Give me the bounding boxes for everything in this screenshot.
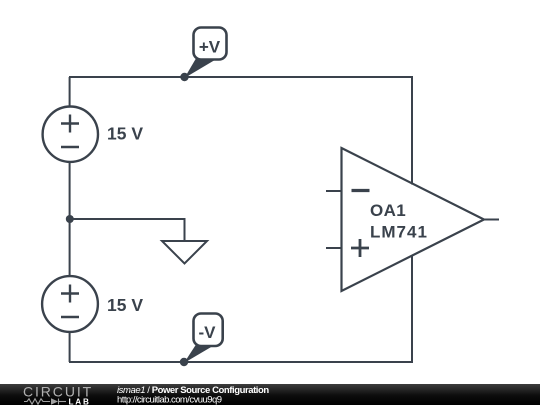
svg-text:+V: +V [199, 37, 221, 56]
logo resistor zigzag and diode [24, 399, 66, 405]
footer url line [117, 395, 222, 405]
net flag +V pointer [185, 58, 215, 79]
wire V1 top to top rail [69, 77, 71, 106]
op-amp OA1 body [342, 148, 485, 291]
net flag +V box [194, 28, 227, 60]
value label V2 15 V [107, 295, 143, 315]
net flag -V node dot [180, 358, 188, 366]
footer bar [0, 384, 540, 405]
op-amp plus symbol [351, 239, 369, 257]
wire top rail [69, 76, 412, 78]
logo LAB [69, 397, 91, 405]
svg-text:LM741: LM741 [370, 223, 428, 242]
footer title line [117, 385, 269, 396]
net flag +V node dot [180, 73, 188, 81]
wire node A to V2 top [69, 219, 71, 276]
wire right rail upper [411, 76, 413, 185]
wire right rail lower [411, 256, 413, 363]
logo diode triangle [51, 398, 58, 405]
svg-text:15 V: 15 V [107, 124, 143, 144]
net flag +V text [199, 37, 221, 56]
junction node A [66, 215, 74, 223]
net flag -V box [194, 314, 223, 347]
value label V1 15 V [107, 124, 143, 144]
svg-text:http://circuitlab.com/cvuu9q9: http://circuitlab.com/cvuu9q9 [117, 395, 222, 405]
op-amp model LM741 [370, 223, 428, 242]
voltage source V1 [43, 107, 98, 162]
logo CIRCUIT [23, 384, 93, 400]
wire node A to ground [70, 219, 185, 241]
voltage source V2 [42, 276, 98, 332]
svg-text:LAB: LAB [69, 397, 91, 405]
op-amp minus symbol [352, 189, 370, 192]
wire bottom rail [69, 361, 412, 363]
op-amp inverting input stub [326, 190, 342, 192]
net flag -V text [199, 323, 217, 342]
op-amp output stub [484, 219, 499, 221]
net flag -V pointer [184, 345, 212, 364]
svg-text:-V: -V [199, 323, 217, 342]
ground [162, 241, 207, 264]
wire V2 bottom to bottom rail [69, 332, 71, 362]
op-amp name OA1 [370, 201, 406, 220]
svg-text:OA1: OA1 [370, 201, 406, 220]
op-amp non-inverting input stub [326, 247, 342, 249]
wire V1 bottom to node A [69, 162, 71, 219]
svg-text:15 V: 15 V [107, 295, 143, 315]
